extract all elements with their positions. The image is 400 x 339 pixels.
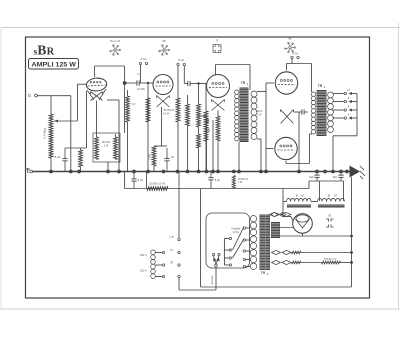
heater B wire <box>301 262 322 264</box>
load box to bus <box>107 162 109 172</box>
svg-text:8 µF: 8 µF <box>138 178 144 182</box>
b+ node line <box>309 180 344 182</box>
V2 plate load resistor <box>176 98 180 122</box>
output contact wire 4 <box>352 117 357 119</box>
svg-text:0,5 A: 0,5 A <box>233 230 240 234</box>
HT return line <box>279 235 352 237</box>
svg-text:1 W: 1 W <box>238 181 243 184</box>
svg-text:56: 56 <box>162 39 166 43</box>
V2 grid leak resistor <box>126 96 130 122</box>
bus junction 19 <box>297 170 301 174</box>
svg-text:10.000: 10.000 <box>137 88 145 91</box>
V4a plate lead <box>286 64 288 71</box>
TR3 tap terminal 1 <box>243 227 245 229</box>
svg-text:130 V: 130 V <box>140 253 147 257</box>
decoupling cap 2 lead <box>210 186 212 189</box>
mains plug lines <box>214 256 217 265</box>
bus junction 23 <box>339 170 343 174</box>
TR3 tap terminal 2 <box>243 239 245 241</box>
V3 cathode tail <box>217 111 219 117</box>
pp grid bottom <box>266 148 274 150</box>
svg-text:8µF: 8µF <box>309 176 314 179</box>
tube socket diagram 2 <box>159 39 170 55</box>
wire grid drop <box>70 96 72 172</box>
mains cord <box>215 267 217 290</box>
svg-text:HT: HT <box>301 195 305 198</box>
heater winding B <box>272 260 292 264</box>
svg-text:1.500: 1.500 <box>149 153 152 160</box>
TR3 tap 2 <box>246 239 251 241</box>
tube V1 heater X <box>91 92 103 101</box>
V2 cath res to bus <box>153 166 155 172</box>
svg-text:P G2: P G2 <box>178 58 184 62</box>
wire G to node <box>37 95 70 97</box>
V2 cathode rail <box>154 145 167 147</box>
V3 grid leak <box>186 104 190 126</box>
choke S2 <box>318 198 345 201</box>
tube socket diagram 4 <box>285 37 296 53</box>
link terminal 3 <box>178 275 180 277</box>
tube V1 grid dashes <box>88 85 106 86</box>
terminal drop <box>140 65 142 83</box>
svg-text:P G2: P G2 <box>141 57 147 61</box>
svg-text:15 ou 21: 15 ou 21 <box>110 39 121 43</box>
junction heater B <box>350 261 353 264</box>
mains rounded box <box>206 213 250 268</box>
svg-text:110 V: 110 V <box>140 269 147 273</box>
bleeder resistor 20000 1W <box>232 176 235 189</box>
bus junction 20 <box>315 170 319 174</box>
link terminal 2 <box>178 264 180 266</box>
decoupling resistor 20000 <box>147 187 168 191</box>
schematic border frame <box>26 37 370 298</box>
output arrow 4 <box>349 116 352 119</box>
load box top tap2 <box>115 134 117 137</box>
V2 gl top <box>127 90 129 96</box>
screen cap bot <box>206 126 208 172</box>
svg-text:HT: HT <box>334 195 338 198</box>
svg-text:S: S <box>328 194 330 198</box>
svg-text:S: S <box>296 194 298 198</box>
bus junction 10 <box>186 170 190 174</box>
output contact wire 2 <box>352 101 357 103</box>
anode load resistor a <box>95 137 99 160</box>
TR2 core <box>317 90 327 136</box>
bus junction 4 <box>106 170 110 174</box>
V3 gl bot <box>187 126 189 172</box>
V1 plate lead <box>94 66 96 77</box>
V2 G2 drop <box>183 66 185 84</box>
svg-text:96: 96 <box>288 37 292 41</box>
V2 P drop lower <box>177 122 179 172</box>
junction grid V2 <box>147 82 149 84</box>
output contact wire 3 <box>352 109 357 111</box>
TR1 primary winding <box>235 90 239 141</box>
volume potentiometer 0.5Meg <box>49 114 53 158</box>
tube V3 <box>207 75 230 98</box>
ground bus <box>33 171 350 173</box>
TR1 secondary winding <box>251 91 257 140</box>
line2 vert from bus <box>124 172 126 189</box>
bus junction 11 <box>197 170 201 174</box>
node line riser <box>308 181 310 189</box>
svg-text:71: 71 <box>215 39 219 43</box>
tube V2 heater X <box>157 96 170 108</box>
selector contact 1 <box>229 237 231 239</box>
heater A resistor <box>292 251 302 253</box>
TR3 tap 3 <box>246 250 251 252</box>
bus junction 22 <box>331 170 335 174</box>
selector stem <box>223 239 225 266</box>
rectifier B+ lead <box>283 216 291 218</box>
TR3 tap 4 <box>246 259 251 261</box>
bus junction 6 <box>132 170 136 174</box>
cap2 to choke <box>343 181 345 201</box>
aux terminal 3 <box>162 275 164 277</box>
V4a plate wire <box>287 63 312 65</box>
aux terminal 2 <box>162 264 164 266</box>
wiper riser <box>76 84 78 121</box>
coupling capacitor C1 <box>133 80 144 85</box>
svg-text:P G2: P G2 <box>292 52 298 56</box>
V4b plate run <box>286 163 310 165</box>
selector link wire <box>178 278 180 290</box>
pp cathode cap <box>298 109 308 114</box>
terminal P V2 <box>177 63 179 65</box>
bus junction 2 <box>69 170 73 174</box>
wire wiper to grid <box>77 83 86 85</box>
screen chain drop <box>198 84 200 105</box>
svg-text:G: G <box>28 93 32 98</box>
V2 P drop <box>177 66 179 98</box>
TR3 secondary block <box>266 215 270 271</box>
junction V1 plate node <box>123 81 127 85</box>
pp cath cap to bus <box>298 116 300 172</box>
V1 plate drop <box>124 66 126 133</box>
rect B+ riser <box>282 189 284 217</box>
cathode resistor <box>79 150 83 167</box>
V2 cathode cap <box>164 148 169 172</box>
pp cath drop <box>298 112 300 116</box>
tube V1 funnel <box>87 89 106 100</box>
plug arrowhead a <box>213 257 216 261</box>
power box left wall <box>200 189 202 288</box>
output arrow 3 <box>349 108 352 111</box>
svg-text:TB: TB <box>170 262 173 265</box>
choke S2 core <box>318 205 345 208</box>
tube socket diagram 1 <box>110 39 121 55</box>
choke S1 core <box>287 205 311 208</box>
terminal P V4 <box>291 56 293 58</box>
pot wiper arm <box>54 120 77 122</box>
V1 cathode rail <box>65 147 87 149</box>
screen divider resistor <box>197 104 201 127</box>
V3 k stub <box>212 120 214 172</box>
V4b plate stub <box>310 133 313 135</box>
V3 cath to bus <box>217 141 219 172</box>
pp cathode link <box>294 111 299 113</box>
V1 plate wire top <box>95 65 125 67</box>
tube socket diagram 3 <box>213 39 221 53</box>
bus junction 1 <box>49 170 53 174</box>
wire pot to bus <box>50 158 52 172</box>
TR3 tap terminal 5 <box>243 265 245 267</box>
terminal G2 V2 <box>183 63 185 65</box>
screen divider resistor 2 <box>197 134 201 148</box>
svg-text:20.000 Ω 5 W: 20.000 Ω 5 W <box>149 182 165 186</box>
svg-text:TR: TR <box>261 271 266 275</box>
output arrow 1 <box>349 92 352 95</box>
TR2 primary winding <box>311 92 315 134</box>
anode load box <box>93 133 120 162</box>
heater B wire 2 <box>341 262 352 264</box>
terminal P V1 <box>139 62 141 64</box>
bus junction 7 <box>146 170 150 174</box>
power box bottom <box>201 286 352 288</box>
bus drop to selector <box>178 172 180 239</box>
pp grid bus <box>265 83 267 172</box>
TR2 sec bottom drop <box>332 136 334 172</box>
junction heater A <box>350 251 353 254</box>
tube V3 heater X <box>212 100 225 111</box>
selector contact 2 <box>229 249 231 251</box>
V1 cathode tail <box>86 91 88 148</box>
V1 screen stub <box>107 99 119 101</box>
rect B+ to S1 <box>283 201 287 203</box>
V3 bias top <box>205 84 207 112</box>
output tap 2 <box>333 101 345 103</box>
AMPLI 125 W label box <box>29 59 79 70</box>
V1 screen drop <box>118 100 120 172</box>
cathode R lead <box>80 148 82 150</box>
resistor feed from bus <box>146 172 148 189</box>
V2 cathode resistor <box>152 146 156 166</box>
aux tap 1 <box>155 252 162 254</box>
svg-text:8 µF: 8 µF <box>215 178 221 182</box>
mains terminal a <box>212 253 214 255</box>
selector contact 3 <box>229 257 231 259</box>
output contact 4 <box>344 117 346 119</box>
svg-text:TOTAL 7 Ω: TOTAL 7 Ω <box>324 257 337 261</box>
svg-text:50.000: 50.000 <box>102 141 110 144</box>
output contact 3 <box>344 109 346 111</box>
svg-text:0,5 Meg.: 0,5 Meg. <box>43 127 47 138</box>
TR3 core <box>260 215 266 271</box>
aux tap 3 <box>155 276 162 278</box>
svg-text:1 W: 1 W <box>104 145 109 148</box>
bus junction 13 <box>211 170 215 174</box>
TR3 primary winding <box>250 216 256 270</box>
selector stub 2 <box>224 249 229 251</box>
svg-text:TA: TA <box>170 249 173 252</box>
bus junction 14 <box>216 170 220 174</box>
fuse link 1 <box>233 227 245 251</box>
output tap 4 <box>333 117 345 119</box>
pp grid top <box>266 82 274 84</box>
rectifier tube envelope <box>293 214 313 234</box>
rectifier anodes <box>296 219 310 228</box>
V3 plate wire <box>216 64 251 66</box>
cap1 to choke <box>319 181 321 201</box>
output collector <box>356 94 358 136</box>
TR1 sec bottom drop <box>260 139 262 172</box>
rectifier filament winding <box>270 212 292 216</box>
TR1 sec bottom wire <box>257 138 261 140</box>
decoupling cap 2 <box>208 172 213 187</box>
V3 bias bot <box>205 141 207 172</box>
cathode R to bus <box>80 167 82 172</box>
screen chain to bus <box>198 148 200 172</box>
V4 terminal drop <box>291 59 293 64</box>
wire to V3 grid <box>194 83 208 85</box>
selector stub 4 <box>224 264 229 266</box>
bus junction 17 <box>259 170 263 174</box>
mains plug lines 2 <box>216 256 219 265</box>
fuse link 2 <box>233 239 245 258</box>
TR1 primary bottom to bus <box>238 142 240 172</box>
TR2 secondary winding <box>328 92 334 133</box>
V3 gl top <box>187 95 189 104</box>
chassis earth arrow <box>350 166 366 180</box>
bus junction 5 <box>117 170 121 174</box>
wire pot top lead <box>50 96 52 114</box>
svg-text:p B: p B <box>170 235 174 239</box>
svg-text:8 µF: 8 µF <box>55 155 61 159</box>
coupling capacitor C2 <box>184 81 193 86</box>
mains terminal b <box>218 253 220 255</box>
V4a plate drop <box>311 64 313 93</box>
bus junction 9 <box>176 170 180 174</box>
svg-text:TR: TR <box>241 81 246 85</box>
svg-text:AMPLI 125 W: AMPLI 125 W <box>32 63 77 69</box>
tube V4a <box>275 72 297 94</box>
V4b plate wire <box>285 161 287 164</box>
aux tap 2 <box>155 264 162 266</box>
terminal G2 V1 <box>145 62 147 64</box>
HV top wire <box>280 227 293 229</box>
mains cord run <box>179 289 216 291</box>
bus junction 8 <box>162 170 166 174</box>
decoupling line B+ <box>125 188 309 190</box>
total resistor <box>322 261 341 264</box>
bus junction 3 <box>77 170 81 174</box>
svg-text:1 W: 1 W <box>257 114 262 117</box>
heater winding A <box>272 250 292 254</box>
TR3 tap 1 <box>246 227 251 229</box>
terminal G2 V4 <box>297 56 299 58</box>
push-pull heater X <box>281 110 294 124</box>
V2 grid leak drop <box>147 83 149 172</box>
output return <box>333 135 357 137</box>
tube V4b <box>275 137 297 159</box>
V3 bias resistor <box>204 111 208 141</box>
junction screen node <box>197 82 199 84</box>
output arrow 2 <box>349 100 352 103</box>
ground symbol left <box>26 168 31 173</box>
TR3 HV block <box>271 222 280 238</box>
wiper arrowhead <box>54 120 58 123</box>
junction HT return <box>350 235 353 238</box>
TR3 tap terminal 3 <box>243 250 245 252</box>
output contact wire 1 <box>352 93 357 95</box>
TR3 tap 5 <box>246 266 251 268</box>
aux terminal 1 <box>162 251 164 253</box>
tube V1 envelope <box>86 77 107 92</box>
svg-text:0,5: 0,5 <box>132 103 136 106</box>
output contact 1 <box>344 92 346 94</box>
selector contact 4 <box>229 264 231 266</box>
decoupling cap 8uF <box>131 172 136 189</box>
choke link <box>311 201 318 203</box>
screen divider mid <box>198 127 200 134</box>
bus junction 12 <box>205 170 209 174</box>
screen bypass cap <box>204 116 209 126</box>
TR3 HV winding top <box>271 212 286 216</box>
rectifier filament left <box>291 217 293 222</box>
aux selector coil <box>151 250 156 279</box>
V3 plate lead <box>215 65 217 76</box>
V4b plate rise <box>309 134 311 164</box>
TR1 primary feed <box>249 65 251 91</box>
rectifier HT bottom <box>302 233 304 236</box>
plug arrowhead b <box>216 257 219 261</box>
heater B resistor <box>292 261 302 263</box>
V3 cathode resistor <box>216 116 220 141</box>
svg-text:TR: TR <box>318 84 323 88</box>
link terminal 0 <box>178 238 180 240</box>
bus junction 15 <box>232 170 236 174</box>
output tap 3 <box>333 109 345 111</box>
svg-text:8µF: 8µF <box>333 176 338 179</box>
V1 plate into box <box>96 101 98 135</box>
mains plug tip <box>215 265 218 268</box>
choke S1 <box>287 198 312 201</box>
svg-text:1/2 W: 1/2 W <box>163 113 170 116</box>
wire node to coupling cap <box>125 82 133 84</box>
rectifier socket diagram <box>326 214 334 228</box>
TR3 tap terminal 4 <box>243 258 245 260</box>
bus junction 18 <box>264 170 268 174</box>
wire cap to V2 grid <box>144 82 154 84</box>
anode load resistor b <box>114 137 118 160</box>
svg-text:Secteur: Secteur <box>210 275 214 284</box>
V2 cathode tail <box>161 107 163 146</box>
TR1 core <box>240 88 249 143</box>
filter cap 1 <box>314 172 319 182</box>
bus junction 21 <box>323 170 327 174</box>
bus left terminal <box>30 170 33 173</box>
TR1 sec top wire <box>257 91 266 93</box>
selector stub 1 <box>224 238 229 240</box>
screen cap top <box>199 115 207 117</box>
power box right wall <box>351 177 353 287</box>
heater A wire <box>301 252 352 254</box>
output tap 1 <box>333 93 345 95</box>
link terminal 1 <box>178 251 180 253</box>
selector stub 3 <box>224 257 229 259</box>
bus junction 16 <box>237 170 241 174</box>
output contact 2 <box>344 100 346 102</box>
input terminal G <box>35 94 38 97</box>
cathode bypass cap 8uF <box>62 148 67 172</box>
load box top tap <box>96 134 98 137</box>
rectifier dome <box>296 215 309 222</box>
V1 load return resistor <box>146 98 150 122</box>
tube V2 <box>153 75 173 95</box>
filter cap 2 <box>338 172 343 182</box>
V2 gl bot <box>127 122 129 172</box>
bus junction 24 <box>345 170 349 174</box>
